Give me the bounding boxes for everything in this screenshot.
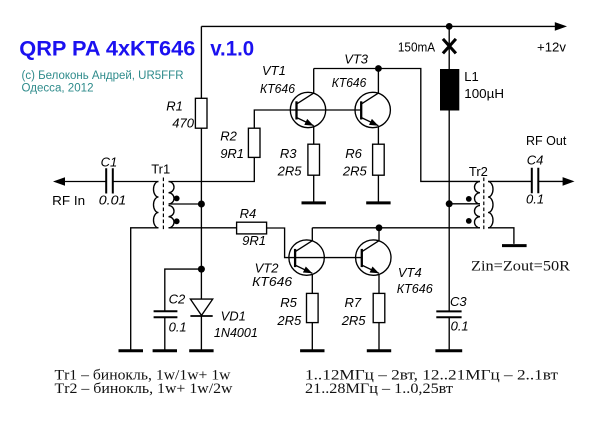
svg-text:КТ646: КТ646	[252, 274, 293, 289]
ground under C2	[153, 349, 177, 352]
svg-text:(с) Белоконь Андрей, UR5FFR: (с) Белоконь Андрей, UR5FFR	[22, 70, 184, 82]
transformer Tr1 core	[162, 178, 164, 232]
junction bias node C2/VD1	[198, 266, 205, 273]
inductor L1 body	[440, 69, 459, 111]
svg-text:L1: L1	[464, 69, 478, 84]
resistor R6	[373, 144, 385, 175]
transformer Tr1 primary winding	[154, 182, 159, 228]
svg-text:Tr1: Tr1	[151, 162, 170, 177]
svg-text:КТ646: КТ646	[260, 81, 296, 96]
svg-text:C4: C4	[527, 153, 544, 168]
ground under R7	[367, 349, 391, 352]
transformer Tr2 core	[483, 178, 485, 232]
resistor R2	[248, 128, 260, 157]
junction Tr1 tap / R1	[198, 201, 205, 208]
wire Tr1 secondary top to R2	[169, 157, 255, 181]
wire bias node to C2	[165, 269, 202, 311]
node RF In arrow terminal	[53, 177, 65, 186]
wire C4 to RF Out	[538, 180, 563, 182]
wire R6 to ground	[377, 175, 379, 203]
svg-text:R7: R7	[345, 295, 362, 310]
svg-text:0.1: 0.1	[169, 320, 187, 335]
wire R1 bottom lead down to VD1 anode	[200, 128, 202, 299]
junction Tr2 tap / L1	[446, 200, 453, 207]
wire R7 to ground	[378, 323, 380, 351]
svg-text:RF Out: RF Out	[526, 133, 567, 148]
diode VD1 cathode bar	[190, 315, 212, 317]
ground under R6	[366, 201, 390, 204]
node RF Out arrow terminal	[563, 177, 575, 186]
transformer Tr1 secondary lower half	[169, 206, 175, 228]
transformer Tr1 secondary upper half	[169, 182, 175, 205]
resistor R4	[237, 222, 267, 234]
wire VD1 cathode to ground	[200, 316, 202, 351]
resistor R3	[308, 144, 320, 175]
svg-text:R2: R2	[220, 129, 237, 144]
svg-text:2R5: 2R5	[342, 164, 368, 179]
svg-text:QRP PA 4xKT646: QRP PA 4xKT646	[19, 37, 195, 61]
resistor R1	[195, 98, 207, 128]
ground under R5	[300, 349, 324, 352]
junction VT3 collector	[375, 65, 382, 72]
svg-text:RF In: RF In	[52, 193, 85, 208]
svg-text:Одесса, 2012: Одесса, 2012	[22, 83, 94, 95]
wire R4 to VT2/VT4 base row	[267, 228, 362, 258]
wire RF In to C1	[65, 181, 107, 183]
wire R5 to ground	[311, 323, 313, 351]
svg-text:R1: R1	[166, 99, 183, 114]
svg-text:100µH: 100µH	[464, 86, 504, 101]
svg-text:C2: C2	[169, 292, 186, 307]
capacitor C4 plates	[532, 168, 539, 193]
wire base row VT1/VT3	[254, 110, 361, 128]
svg-text:R3: R3	[280, 146, 297, 161]
wire VT2/VT4 collector rail to Tr2 bottom	[312, 227, 480, 229]
transistor VT2	[289, 228, 324, 294]
svg-text:VD1: VD1	[221, 309, 246, 324]
svg-text:R4: R4	[240, 206, 257, 221]
wire +12V top rail	[201, 25, 555, 27]
transformer Tr2 primary upper half	[474, 182, 480, 205]
transformer Tr2 primary lower half	[474, 206, 480, 228]
svg-text:VT4: VT4	[398, 265, 422, 280]
Tr1 polarity dot lower	[174, 218, 180, 224]
svg-text:9R1: 9R1	[220, 146, 244, 161]
ground under Tr2 secondary	[502, 244, 527, 247]
svg-text:+12v: +12v	[537, 40, 566, 55]
wire Tr2 secondary bottom to ground	[488, 228, 514, 244]
junction VT4 collector	[376, 224, 383, 231]
svg-text:470: 470	[172, 116, 194, 131]
resistor R7	[373, 293, 385, 322]
diode VD1	[190, 299, 212, 315]
svg-text:0.01: 0.01	[99, 193, 127, 208]
Tr2 polarity dot lower	[466, 218, 472, 224]
wire L1 bottom down to C3 (through Tr2 tap junction)	[448, 111, 450, 312]
wire C2 bottom lead to ground	[164, 317, 166, 350]
svg-text:VT3: VT3	[344, 51, 369, 66]
Tr2 polarity dot upper	[466, 196, 472, 202]
wire Tr1 secondary bottom to R4	[169, 227, 237, 229]
wire R1 top lead from +12V rail	[200, 26, 202, 98]
svg-text:150mA: 150mA	[398, 40, 435, 55]
svg-text:2R5: 2R5	[341, 313, 367, 328]
wire VT1/VT3 collector rail to Tr2 top	[314, 69, 480, 182]
svg-text:0.1: 0.1	[451, 319, 469, 334]
transformer Tr2 secondary winding	[488, 182, 493, 228]
transistor VT3	[355, 69, 390, 145]
ground under C3	[435, 349, 462, 352]
svg-text:КТ646: КТ646	[397, 281, 434, 296]
Tr1 polarity dot upper	[174, 196, 180, 202]
svg-text:v.1.0: v.1.0	[210, 37, 254, 61]
svg-text:2R5: 2R5	[277, 164, 303, 179]
transistor VT4	[356, 228, 391, 294]
capacitor C3 plates	[436, 311, 461, 317]
svg-text:C3: C3	[450, 294, 467, 309]
wire Tr2 secondary top to C4	[488, 180, 532, 182]
capacitor C1 plates	[106, 168, 113, 193]
svg-text:R5: R5	[280, 295, 297, 310]
junction on +12V rail	[446, 23, 453, 30]
svg-text:2R5: 2R5	[276, 313, 302, 328]
svg-text:C1: C1	[101, 155, 118, 170]
svg-text:Tr2: Tr2	[469, 164, 488, 179]
svg-text:21..28МГц – 1..0,25вт: 21..28МГц – 1..0,25вт	[305, 381, 453, 397]
wire R3 to ground	[313, 175, 315, 203]
svg-text:Тr2 – бинокль, 1w+ 1w/2w: Тr2 – бинокль, 1w+ 1w/2w	[55, 381, 233, 397]
wire Tr1 center tap to bias node	[169, 203, 202, 205]
svg-text:Zin=Zout=50R: Zin=Zout=50R	[471, 258, 570, 274]
svg-text:КТ646: КТ646	[332, 75, 367, 90]
svg-text:VT1: VT1	[262, 63, 286, 78]
fuse 150mA X symbol	[443, 39, 456, 54]
wire C1 to Tr1 primary top	[113, 181, 159, 183]
capacitor C2 plates	[154, 311, 178, 317]
wire C3 bottom lead to ground	[448, 317, 450, 350]
ground under Tr1 primary	[119, 349, 144, 352]
node +12V arrow terminal	[555, 22, 567, 31]
ground under VD1	[189, 349, 213, 352]
svg-text:1N4001: 1N4001	[214, 325, 258, 340]
svg-text:9R1: 9R1	[242, 233, 266, 248]
svg-text:0.1: 0.1	[526, 191, 544, 206]
svg-text:R6: R6	[345, 146, 362, 161]
wire from L1 junction on rail down to fuse and L1	[448, 26, 450, 69]
wire Tr1 primary bottom to ground	[131, 228, 159, 351]
transistor VT1	[290, 69, 325, 145]
ground under R3	[302, 201, 326, 204]
wire Tr2 center tap from L1 feed	[449, 203, 480, 205]
resistor R5	[307, 293, 319, 322]
